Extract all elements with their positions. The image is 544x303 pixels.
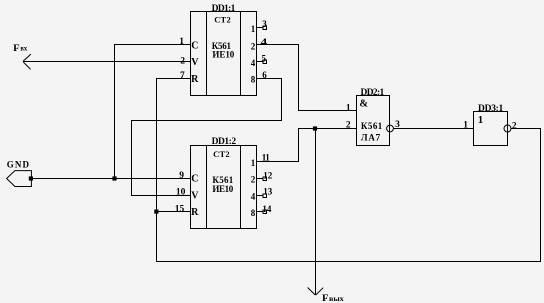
wire DD1:1 out 8 (pin 6) to DD1:2 pin V [132, 79, 282, 196]
svg-text:4: 4 [251, 58, 256, 68]
svg-text:V: V [191, 57, 199, 68]
svg-text:CT2: CT2 [213, 149, 230, 159]
svg-text:2: 2 [251, 41, 256, 51]
inversion bubble (DD3:1 out) [504, 125, 511, 132]
svg-text:9: 9 [179, 171, 184, 181]
no-connect stub pin 14 (DD1:2 out 8) [257, 204, 272, 214]
svg-text:DD1:2: DD1:2 [212, 137, 237, 147]
svg-text:R: R [191, 207, 199, 218]
wire Fвх to DD1:1 pin V [23, 61, 191, 63]
svg-text:GND: GND [7, 160, 30, 170]
svg-text:вых: вых [329, 294, 344, 303]
counter DD1:2 body [191, 146, 257, 229]
inverter DD3:1 body [474, 112, 508, 146]
port arrow Fвых [308, 288, 324, 296]
wire DD1:2 pin R join [157, 211, 191, 213]
svg-text:ИЕ10: ИЕ10 [212, 49, 234, 59]
svg-text:&: & [359, 99, 368, 110]
value К561 ИЕ10 (DD1:2) [212, 175, 233, 194]
svg-text:V: V [191, 191, 199, 202]
junction Fвых tap [313, 126, 317, 130]
junction C1-net on GND rail [112, 176, 116, 180]
port arrow Fвх [23, 54, 31, 69]
junction at GND port [29, 176, 33, 180]
wire DD2:1 out to DD3:1 in [394, 128, 474, 130]
svg-text:C: C [191, 174, 198, 185]
svg-text:1: 1 [179, 37, 184, 47]
svg-text:DD3:1: DD3:1 [478, 104, 504, 114]
svg-text:7: 7 [180, 71, 185, 81]
svg-text:2: 2 [512, 121, 517, 131]
svg-text:4: 4 [261, 37, 268, 47]
wire DD1:1 out 2 (pin 4) to DD2:1 pin 1 [257, 45, 357, 111]
no-connect stub pin 13 (DD1:2 out 4) [257, 187, 273, 198]
wire DD1:2 out 1 (pin 11) to DD2:1 pin 2 [257, 129, 357, 162]
svg-text:1: 1 [346, 104, 351, 114]
svg-text:15: 15 [175, 204, 185, 214]
svg-text:8: 8 [251, 208, 256, 218]
svg-text:8: 8 [251, 75, 256, 85]
svg-text:ИЕ10: ИЕ10 [212, 184, 233, 194]
inversion bubble (DD2:1 out) [387, 125, 394, 132]
svg-text:C: C [191, 41, 198, 52]
port symbol GND [7, 171, 32, 187]
svg-text:К561: К561 [361, 121, 383, 131]
port label Fвх [13, 43, 27, 53]
port label Fвых [322, 293, 344, 303]
no-connect stub pin 12 (DD1:2 out 2) [257, 171, 273, 181]
svg-text:13: 13 [263, 187, 273, 197]
svg-text:CT2: CT2 [214, 15, 231, 25]
value К561 ЛА7 (DD2:1) [361, 121, 383, 143]
svg-text:F: F [13, 43, 20, 53]
svg-text:4: 4 [251, 192, 256, 202]
svg-text:1: 1 [251, 158, 256, 168]
no-connect stub pin 5 (DD1:1 out 4) [257, 54, 267, 64]
wire Fвых drop [315, 129, 317, 295]
svg-text:12: 12 [263, 171, 273, 181]
wire DD1:1 pin R to feedback rail [157, 79, 541, 262]
svg-text:3: 3 [262, 19, 267, 29]
wire DD1:1 pin C to GND rail [115, 45, 191, 179]
svg-text:R: R [191, 74, 199, 85]
svg-text:DD1:1: DD1:1 [212, 4, 236, 14]
svg-text:вх: вх [20, 44, 27, 53]
svg-text:ЛА7: ЛА7 [361, 133, 381, 143]
value К561 ИЕ10 (DD1:1) [212, 41, 235, 59]
svg-text:5: 5 [262, 54, 267, 64]
wire GND rail to DD1:2 pin C [31, 178, 190, 180]
svg-text:1: 1 [251, 24, 256, 34]
svg-text:1: 1 [478, 114, 484, 126]
nand gate DD2:1 body [357, 96, 390, 146]
no-connect stub pin 3 (DD1:1 out 1) [257, 19, 268, 30]
svg-text:2: 2 [251, 175, 256, 185]
svg-text:DD2:1: DD2:1 [361, 88, 385, 98]
counter DD1:1 body [191, 12, 257, 96]
svg-text:14: 14 [262, 204, 272, 214]
junction R-net [154, 210, 158, 214]
